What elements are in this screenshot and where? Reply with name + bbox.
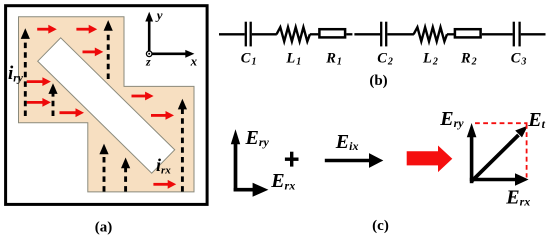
- red current arrow a6: [60, 108, 85, 117]
- svg-text:L1: L1: [285, 51, 301, 68]
- wire L2 to R2: [447, 33, 455, 35]
- wire left of C1: [219, 33, 245, 35]
- red current arrow a8: [151, 111, 174, 120]
- vector E_rx arrow (right group): [470, 173, 529, 186]
- conductor region (orange staircase polygon): [19, 17, 195, 192]
- vector E_ry arrow (right group): [467, 123, 477, 183]
- vector E_rx arrow (left group): [234, 183, 269, 197]
- red current arrow a7: [132, 92, 154, 101]
- svg-text:Et: Et: [527, 109, 545, 131]
- black dashed current arrow b3: [48, 83, 57, 116]
- svg-text:Ery: Ery: [439, 108, 464, 130]
- capacitor C1: [246, 22, 251, 47]
- diagonal slot (white rotated rectangle): [38, 38, 175, 173]
- red current arrow a3: [83, 48, 104, 57]
- red current arrow a1: [37, 25, 57, 34]
- svg-text:C2: C2: [377, 51, 393, 68]
- svg-text:Eix: Eix: [335, 131, 359, 153]
- coordinate origin z (circle with dot): [146, 51, 152, 57]
- wire right of C3: [521, 33, 546, 35]
- black dashed current arrow b2: [104, 20, 113, 79]
- wire R2 to C3: [482, 33, 513, 35]
- wire C2 to L2: [387, 33, 414, 35]
- resistor R2 (box): [455, 29, 481, 37]
- resistor R1 (box): [319, 29, 345, 37]
- svg-text:R2: R2: [460, 51, 477, 68]
- svg-text:C3: C3: [511, 51, 527, 68]
- svg-text:R1: R1: [325, 51, 342, 68]
- wire break to C2: [354, 33, 380, 35]
- black dashed current arrow b5: [121, 158, 130, 192]
- svg-text:Ery: Ery: [245, 127, 270, 149]
- svg-text:x: x: [190, 54, 198, 69]
- svg-text:(b): (b): [369, 73, 387, 89]
- red current arrow a5: [27, 98, 51, 107]
- svg-text:Erx: Erx: [270, 170, 295, 192]
- svg-text:(a): (a): [95, 219, 113, 235]
- vector E_ix arrow: [325, 153, 384, 168]
- panel (a) outer square frame: [6, 6, 208, 205]
- plus sign: [285, 152, 299, 167]
- svg-text:Erx: Erx: [505, 186, 530, 208]
- wire L1 to R1: [310, 33, 319, 35]
- red current arrow a9: [153, 180, 176, 189]
- black dashed current arrow b4: [99, 144, 108, 192]
- black dashed current arrow b1: [21, 28, 30, 116]
- black dashed current arrow b6: [178, 99, 187, 192]
- red dashed construction line (vertical): [526, 124, 528, 178]
- capacitor C2: [381, 22, 386, 47]
- red dashed construction line (horizontal): [475, 122, 528, 124]
- svg-text:L2: L2: [422, 51, 438, 68]
- vector E_t arrow (diagonal resultant): [472, 126, 528, 182]
- svg-text:y: y: [155, 7, 163, 22]
- vector E_ry arrow (left group): [231, 129, 240, 191]
- capacitor C3: [514, 22, 520, 47]
- red block arrow (implies): [407, 146, 453, 173]
- inductor L1 (zigzag): [277, 27, 310, 41]
- coordinate axis y: [145, 12, 153, 54]
- wire R1 to break: [346, 33, 352, 35]
- inductor L2 (zigzag): [414, 27, 447, 41]
- svg-text:z: z: [145, 55, 151, 69]
- wire C1 to L1: [252, 33, 277, 35]
- red current arrow a4: [27, 77, 51, 86]
- svg-text:C1: C1: [241, 51, 257, 68]
- coordinate axis x: [149, 50, 194, 58]
- svg-text:(c): (c): [372, 218, 389, 234]
- red current arrow a2: [76, 25, 97, 34]
